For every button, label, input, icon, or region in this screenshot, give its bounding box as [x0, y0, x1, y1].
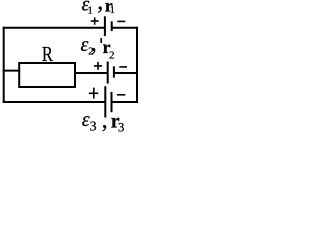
svg-text:3: 3	[118, 120, 125, 135]
svg-text:2: 2	[109, 50, 115, 62]
wire: top edge right of battery 1	[112, 27, 138, 29]
wire: middle branch stub from left edge to resistor box	[3, 70, 20, 72]
plus sign of battery 1	[91, 20, 99, 22]
wire: outer loop left edge	[3, 27, 5, 103]
minus sign of battery 1	[117, 20, 125, 22]
svg-text:,: ,	[102, 107, 108, 133]
svg-text:ε: ε	[82, 109, 90, 131]
svg-text:1: 1	[110, 5, 115, 16]
minus sign of battery 2	[119, 66, 127, 68]
battery B1 long plate	[104, 16, 106, 36]
svg-text:R: R	[42, 42, 54, 66]
battery B2 short plate	[113, 66, 115, 77]
svg-text:,: ,	[97, 0, 103, 15]
svg-text:,: ,	[91, 31, 97, 57]
wire: bottom edge left of battery 3	[3, 101, 106, 103]
plus sign of battery 2	[94, 65, 102, 67]
wire: bottom edge right of battery 3	[111, 101, 138, 103]
battery B3 short plate	[111, 92, 113, 112]
wire: resistor box to battery 2	[74, 72, 108, 74]
resistor R box	[19, 63, 75, 87]
wire: outer loop right edge	[136, 27, 138, 103]
minus sign of battery 3	[117, 94, 125, 96]
plus sign of battery 3	[89, 92, 99, 94]
wire: top edge left of battery 1	[3, 27, 105, 29]
svg-text:1: 1	[88, 5, 93, 16]
stray tick near label epsilon2	[100, 38, 102, 43]
wire: battery 2 to right edge	[114, 72, 138, 74]
battery B1 short plate	[111, 21, 113, 31]
battery B3 long plate	[104, 86, 106, 117]
svg-text:3: 3	[90, 119, 97, 134]
battery B2 long plate	[107, 62, 109, 84]
